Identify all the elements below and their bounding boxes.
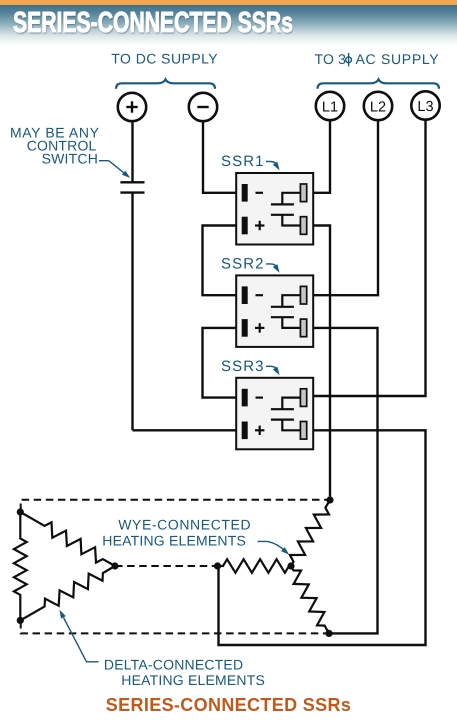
node wye left — [214, 562, 221, 569]
svg-text:SSR1: SSR1 — [221, 153, 265, 170]
resistor delta top (A-C) — [20, 512, 115, 566]
wire SSR2 output down to wye node 3 — [305, 328, 378, 634]
label TO 3-phase AC SUPPLY — [315, 51, 440, 67]
wire SSR1 output down to wye node 1 — [305, 226, 330, 501]
dashed link delta node B to wye node 3 — [21, 621, 329, 633]
SSR1 box — [236, 173, 313, 245]
SSR3 output terminals (AC side) — [300, 389, 306, 439]
node wye 1 (top) — [326, 496, 333, 503]
svg-text:DELTA-CONNECTED: DELTA-CONNECTED — [104, 656, 243, 672]
svg-text:TO DC SUPPLY: TO DC SUPPLY — [111, 51, 218, 67]
wire SSR3 plus to + supply line — [133, 429, 244, 431]
label MAY BE ANY CONTROL SWITCH — [10, 124, 100, 166]
header title — [13, 7, 293, 40]
leader arrow SSR2 — [266, 264, 280, 273]
resistor delta bottom (B-C) — [20, 566, 115, 620]
wire SSR2 plus to SSR3 minus (series link) — [203, 328, 244, 398]
resistor wye lower — [291, 566, 329, 633]
svg-text:WYE-CONNECTED: WYE-CONNECTED — [118, 517, 251, 533]
SSR2 output contact symbol — [271, 295, 301, 328]
svg-text:HEATING ELEMENTS: HEATING ELEMENTS — [102, 533, 246, 549]
wire L2 down to SSR2 output — [305, 120, 378, 295]
leader arrow SSR1 — [266, 162, 280, 171]
brace AC supply — [318, 79, 440, 88]
resistor wye upper — [290, 500, 330, 566]
svg-text:HEATING ELEMENTS: HEATING ELEMENTS — [121, 672, 265, 688]
svg-text:SSR3: SSR3 — [221, 358, 265, 375]
svg-text:TO 3: TO 3 — [315, 51, 347, 67]
wire - DC supply down to SSR1 minus input — [203, 121, 243, 193]
svg-text:L1: L1 — [322, 99, 338, 115]
dashed link delta node A to wye node 1 — [21, 500, 330, 511]
brace DC supply — [116, 79, 215, 88]
svg-text:SWITCH: SWITCH — [42, 151, 98, 167]
caption SERIES-CONNECTED SSRs — [0, 695, 457, 716]
SSR3 input terminals (DC side) — [242, 389, 248, 439]
leader arrow to control switch — [99, 161, 130, 178]
node wye center — [287, 562, 294, 569]
terminal L3 — [411, 91, 439, 119]
SSR2 input terminals (DC side) — [242, 286, 248, 336]
terminal - DC supply — [189, 93, 217, 121]
label WYE-CONNECTED HEATING ELEMENTS — [102, 517, 251, 549]
wire L1 down to SSR1 output — [305, 120, 330, 193]
terminal L2 — [364, 92, 392, 120]
node delta C — [111, 562, 118, 569]
dashed link delta node C to wye left node — [115, 565, 217, 567]
SSR2 polarity marks - and + — [255, 295, 264, 332]
title bar top orange rule — [0, 0, 457, 5]
wire control switch down to SSR3 plus input — [131, 193, 133, 431]
terminal L1 — [316, 92, 344, 120]
SSR3 box — [236, 378, 313, 450]
SSR1 output contact symbol — [271, 193, 301, 226]
header band — [0, 5, 457, 45]
leader arrow wye — [258, 541, 290, 554]
leader arrow SSR3 — [266, 366, 280, 375]
resistor delta left (A-B) — [14, 512, 27, 620]
svg-text:SSR2: SSR2 — [221, 256, 265, 273]
SSR1 input terminals (DC side) — [242, 184, 248, 234]
label DELTA-CONNECTED HEATING ELEMENTS — [104, 656, 265, 688]
resistor wye left — [218, 559, 292, 573]
wire SSR1 plus to SSR2 minus (series link) — [203, 226, 244, 296]
wire L3 down to SSR3 output — [305, 120, 426, 396]
SSR2 output terminals (AC side) — [300, 286, 306, 336]
SSR1 output terminals (AC side) — [300, 184, 306, 234]
node delta B — [17, 617, 24, 624]
wire + DC supply down to control switch — [131, 121, 133, 182]
control switch SW — [120, 182, 144, 192]
terminal + DC supply — [118, 93, 146, 121]
leader arrow delta — [60, 610, 99, 662]
node wye 3 (bottom) — [325, 630, 332, 637]
SSR3 output contact symbol — [271, 398, 301, 431]
wire SSR3 output across bottom up to wye node 2 — [219, 430, 426, 645]
svg-text:L2: L2 — [370, 99, 386, 115]
SSR1 polarity marks - and + — [255, 193, 264, 230]
node delta A — [17, 508, 24, 515]
SSR2 box — [236, 275, 313, 347]
SSR3 polarity marks - and + — [255, 398, 264, 435]
svg-text:AC SUPPLY: AC SUPPLY — [356, 51, 440, 67]
svg-text:L3: L3 — [417, 99, 433, 115]
